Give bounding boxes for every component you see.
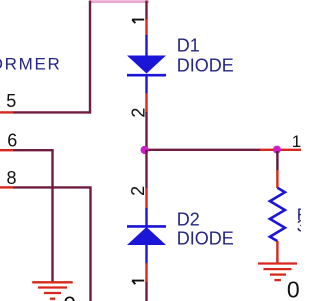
diode D1 pin 2 (red) — [145, 93, 147, 113]
pin number 1 (right component) — [292, 132, 301, 151]
diode D1 — [127, 35, 166, 94]
wire (D2 pin 1 to bottom edge) — [145, 282, 147, 301]
wire (top vertical to diode D1 pin 1) — [145, 1, 147, 20]
svg-text:ORMER: ORMER — [0, 55, 61, 74]
wire (junction down to diode D2) — [145, 150, 147, 189]
pin number 1 (D2 pin 1, rotated) — [132, 281, 144, 285]
wire (pin 8 down to bottom edge) — [13, 187, 91, 301]
pin number 6 — [7, 130, 17, 150]
pin number 2 (D1 pin 2, rotated) — [128, 108, 148, 118]
label R (resistor designator, clipped at right edge) — [297, 205, 319, 224]
resistor R (right branch, top lead red) — [270, 151, 285, 263]
diode D2 pin 1 (red) — [145, 263, 147, 283]
svg-text:0: 0 — [63, 291, 76, 301]
svg-text:1: 1 — [292, 132, 301, 151]
pin number 8 — [7, 168, 17, 188]
wire (left vertical from pink net to pin 5) — [89, 1, 91, 114]
label DIODE (D2) — [177, 228, 234, 248]
pin 8 (transformer, red stub) — [0, 186, 13, 188]
label DIODE (D1) — [177, 55, 234, 75]
pin number 5 — [6, 91, 16, 111]
diode D1 pin 1 (red) — [145, 19, 147, 36]
label 3 (resistor value, clipped at right edge) — [297, 217, 306, 236]
svg-text:6: 6 — [7, 130, 17, 150]
diode D2 pin 2 (red) — [145, 188, 147, 209]
svg-text:DIODE: DIODE — [177, 228, 234, 248]
pin number 2 (D2 pin 2, rotated) — [128, 186, 148, 196]
wire (pin 6 to left ground) — [13, 150, 53, 282]
junction node A (left dot) — [141, 146, 149, 154]
label D1 — [177, 35, 200, 55]
ground (right) — [258, 264, 297, 281]
wire (pin 5 horizontal) — [13, 111, 91, 113]
wire (horizontal junction to right) — [147, 149, 262, 151]
junction node B (right dot) — [273, 146, 281, 154]
net label 0 (left ground, clipped) — [63, 291, 76, 301]
pin 6 (transformer, red stub) — [0, 149, 13, 151]
ground (left) — [32, 282, 72, 298]
svg-text:3: 3 — [297, 217, 301, 236]
svg-text:2: 2 — [128, 186, 148, 196]
svg-text:8: 8 — [7, 168, 17, 188]
label D2 — [177, 210, 200, 230]
net label 0 (right ground) — [287, 277, 300, 301]
pin number 1 (D1 pin 1, rotated) — [132, 20, 144, 24]
svg-text:0: 0 — [287, 277, 300, 301]
svg-text:D2: D2 — [177, 210, 200, 230]
transformer label (ORMER, clipped at left edge) — [0, 55, 61, 74]
wire (D1 pin 2 to junction) — [145, 112, 147, 151]
diode D2 — [127, 208, 166, 264]
svg-text:5: 5 — [6, 91, 16, 111]
wire (pink net, top) — [89, 0, 149, 3]
svg-text:D1: D1 — [177, 35, 200, 55]
svg-text:DIODE: DIODE — [177, 55, 234, 75]
pin 5 (transformer, red stub) — [0, 111, 14, 113]
pin 1 (right component, red) — [260, 149, 301, 151]
